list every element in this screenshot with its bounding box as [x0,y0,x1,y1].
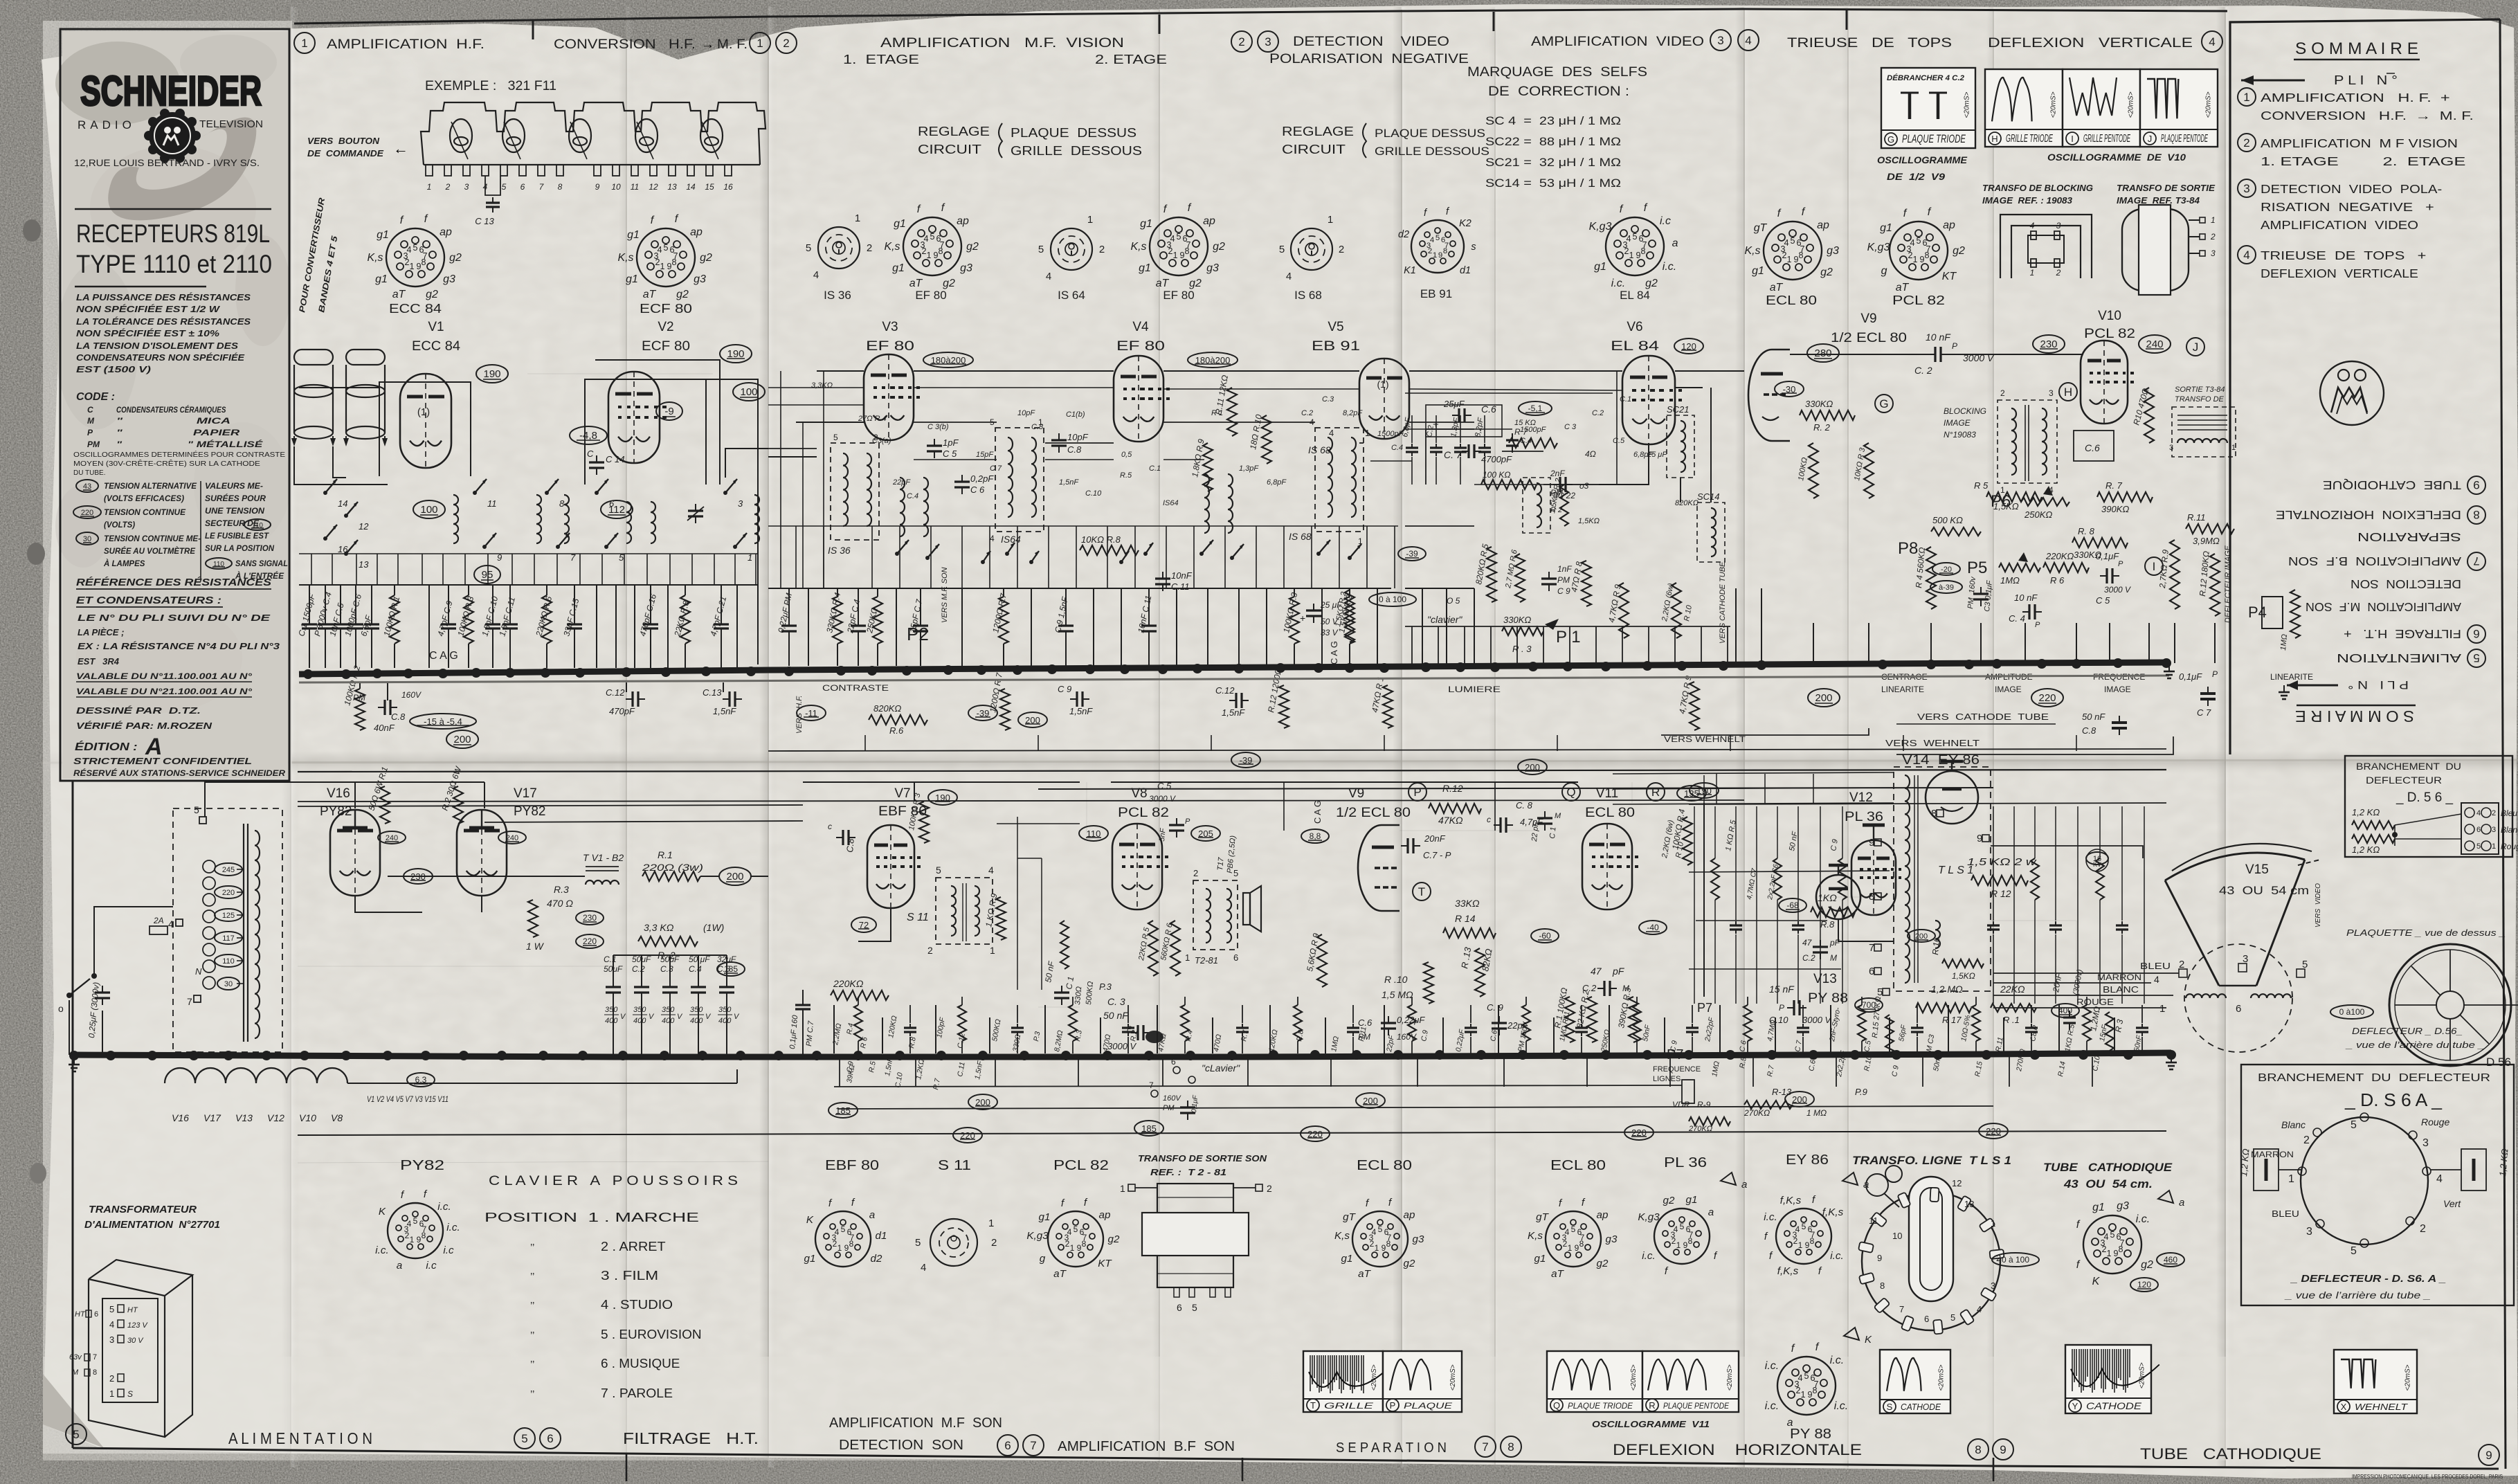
resistor [1777,806,1778,858]
voltage -11 [797,705,826,721]
CRT socket [2083,1215,2141,1274]
svg-text:i.c.: i.c. [446,1222,460,1233]
svg-text:IMAGE: IMAGE [2104,685,2131,694]
svg-text:o3: o3 [1579,481,1589,491]
capacitor [1797,806,1799,921]
svg-text:C 9: C 9 [1557,586,1570,596]
svg-text:C.4: C.4 [1520,437,1532,445]
svg-text:P8: P8 [1898,539,1918,558]
capacitor 0,25uF 3000v [102,986,103,993]
svg-text:i.c: i.c [1660,215,1671,227]
svg-text:1: 1 [410,1235,415,1245]
svg-text:0,1μF: 0,1μF [1190,1094,1199,1113]
svg-text:1. ETAGE: 1. ETAGE [843,53,919,66]
svg-text:220Ω (3w): 220Ω (3w) [642,862,703,873]
svg-text:g1: g1 [1880,222,1892,234]
svg-text:<20mS>: <20mS> [1370,1364,1378,1391]
svg-text:S E P A R A T I O N: S E P A R A T I O N [1336,1440,1447,1456]
svg-text:Vert: Vert [2443,1198,2461,1209]
svg-text:2: 2 [1267,1183,1272,1194]
tube socket IS36 [818,227,860,269]
svg-text:i.c: i.c [443,1245,454,1256]
svg-text:R 14: R 14 [1455,913,1476,924]
svg-text:1: 1 [1676,1240,1681,1250]
svg-text:1,3pF: 1,3pF [1239,464,1259,473]
TLS1 drawing [1862,1192,2000,1330]
svg-text:" PAPIER: " PAPIER [116,428,240,437]
voltage 400 [2051,1004,2079,1017]
svg-text:CONVERSION H.F. → M. F.: CONVERSION H.F. → M. F. [2261,109,2474,123]
svg-text:T V1 - B2: T V1 - B2 [583,852,624,863]
svg-text:9: 9 [595,182,600,192]
tube V17 PY82 [457,810,507,896]
oval 0a100 crt [1992,1253,2039,1267]
svg-text:25 μF: 25 μF [1647,451,1667,459]
svg-text:"cLavier": "cLavier" [1202,1062,1240,1074]
capacitor 4,7pF C.9 [448,585,449,619]
svg-text:K,s: K,s [884,241,900,253]
tube socket ECC84 [386,228,444,287]
svg-text:8: 8 [558,182,563,192]
svg-text:30: 30 [224,980,233,988]
svg-text:1: 1 [1798,1240,1803,1250]
svg-text:f,K,s: f,K,s [1822,1206,1844,1218]
secondary winding [255,831,260,1038]
svg-text:9: 9 [933,251,938,260]
cathode joints [355,896,422,912]
svg-text:’’: ’’ [530,1271,534,1283]
svg-text:240: 240 [506,834,518,842]
svg-text:i.c.: i.c. [1611,278,1625,289]
mains switch [66,993,72,998]
resistor R8 330K [2072,538,2128,548]
svg-text:5: 5 [1435,234,1440,242]
svg-text:1: 1 [2231,444,2236,452]
panel2 vertical drops [795,526,797,588]
svg-text:AMPLIFICATION H.F.: AMPLIFICATION H.F. [327,37,484,52]
svg-text:1: 1 [855,212,860,224]
svg-text:5: 5 [1192,1302,1197,1313]
svg-text:200: 200 [726,871,743,883]
svg-text:22pF: 22pF [892,478,911,487]
svg-text:ap: ap [1597,1209,1609,1221]
capacitor [1127,1005,1129,1023]
svg-text:5: 5 [413,1216,418,1226]
letter R circ [1647,783,1665,801]
svg-text:390KΩ: 390KΩ [2101,504,2129,514]
wire [808,588,809,666]
svg-text:4: 4 [109,1319,114,1330]
oscillogram V10 triptych [1985,69,2063,147]
svg-text:8: 8 [421,257,426,267]
voltage 220 b [576,934,604,948]
svg-text:RADIO: RADIO [78,118,136,132]
svg-text:f,K,s: f,K,s [1777,1265,1799,1277]
svg-text:C.10: C.10 [1769,1015,1788,1025]
branchement D56A panel [2241,1065,2514,1305]
panel2 tuning coils B [1204,474,1209,533]
svg-text:C.10: C.10 [1085,489,1102,498]
svg-text:GRILLE TRIODE: GRILLE TRIODE [2006,133,2053,145]
svg-text:R .10: R .10 [1384,974,1408,985]
tube V12 PL36 [1851,840,1896,915]
svg-text:R 5: R 5 [1974,480,1989,491]
svg-text:2: 2 [1099,244,1105,255]
wire [1031,588,1032,666]
oval 0a100 d56 [2330,1005,2373,1019]
tube socket PY88 bottom [1777,1357,1836,1415]
svg-text:9: 9 [667,262,671,271]
svg-text:1500pF: 1500pF [1377,430,1404,438]
sommaire item 3 [2238,179,2256,197]
svg-text:V9: V9 [1348,786,1364,801]
svg-text:X: X [2341,1402,2347,1412]
svg-text:g2: g2 [1953,245,1965,257]
svg-text:G: G [1887,134,1894,145]
tube V16 PY82 [330,810,380,896]
svg-text:POLARISATION NEGATIVE: POLARISATION NEGATIVE [1269,52,1469,66]
svg-text:5: 5 [109,1304,114,1314]
svg-text:P5: P5 [1967,559,1987,577]
tube socket ECF80 [637,228,695,287]
svg-text:8: 8 [1386,1239,1391,1249]
svg-text:CONDENSATEURS CÉRAMIQUES: CONDENSATEURS CÉRAMIQUES [116,404,226,415]
svg-text:K: K [2092,1276,2101,1287]
voltage taps column [215,863,242,876]
svg-text:2. ETAGE: 2. ETAGE [1095,53,1167,66]
svg-text:400: 400 [633,1017,646,1025]
svg-text:REGLAGE: REGLAGE [1282,125,1354,138]
svg-text:K,s: K,s [617,252,633,264]
svg-text:IMAGE REF. T3-84: IMAGE REF. T3-84 [2117,196,2200,206]
wires V9 [1400,830,1537,831]
tube V4 EF80 [1114,356,1163,442]
svg-text:2A: 2A [153,916,164,925]
resistor [1975,997,1977,1005]
horizontal return rails lower [834,1085,1682,1087]
svg-text:AMPLIFICATION VIDEO: AMPLIFICATION VIDEO [1531,35,1704,49]
svg-text:-5,1: -5,1 [1528,404,1543,413]
svg-text:1: 1 [2106,1249,2111,1258]
long plate rails upper band [768,387,864,388]
svg-text:5: 5 [521,1432,527,1445]
svg-text:5: 5 [1176,232,1181,242]
svg-text:9: 9 [844,1243,849,1253]
wire [615,585,617,668]
svg-text:4: 4 [407,1219,412,1229]
svg-text:VERS VIDEO: VERS VIDEO [2315,883,2322,927]
wire [736,585,738,668]
wire [1422,588,1423,664]
svg-text:VALEURS ME-: VALEURS ME- [205,482,263,491]
svg-text:4: 4 [921,1262,926,1274]
sheet right border [2500,19,2506,1469]
svg-text:g1: g1 [626,273,638,285]
svg-text:G: G [1879,397,1888,410]
svg-text:5: 5 [2351,1119,2357,1131]
svg-text:DE CORRECTION :: DE CORRECTION : [1488,84,1629,99]
wire [1694,806,1695,1004]
svg-text:220: 220 [81,509,93,517]
resistor R10 18ohm [1262,415,1271,464]
svg-text:LE FUSIBLE EST: LE FUSIBLE EST [205,532,269,541]
svg-text:2: 2 [2210,232,2216,242]
oscillogram Y cathode [2065,1345,2151,1413]
panel2 left rail wires [780,371,781,588]
blocking transformer [1998,400,2057,483]
svg-text:5: 5 [1632,232,1637,242]
wire [1093,588,1094,666]
svg-text:+: + [1300,613,1305,624]
capacitor 33pF C.15 [574,585,575,619]
svg-text:R 16: R 16 [1930,936,1941,955]
svg-text:_ D. S 6 A _: _ D. S 6 A _ [2344,1089,2443,1110]
svg-text:9: 9 [1575,1243,1579,1253]
voltage 230 [2033,335,2065,353]
svg-text:AMPLIFICATION H. F. +: AMPLIFICATION H. F. + [2261,91,2450,105]
svg-text:250KΩ: 250KΩ [2024,509,2052,520]
svg-text:<20mS>: <20mS> [2050,91,2058,118]
capacitor C8 v7 [836,837,843,838]
svg-text:g1: g1 [377,229,389,241]
svg-text:P: P [87,428,93,437]
svg-text:11: 11 [487,498,497,509]
wire [1269,1005,1271,1053]
svg-text:1: 1 [1185,952,1190,963]
svg-text:6: 6 [2473,627,2479,640]
wire [1176,588,1177,666]
svg-text:DÉBRANCHER 4 C.2: DÉBRANCHER 4 C.2 [1887,73,1964,82]
wire [1609,1005,1610,1053]
svg-text:d1: d1 [876,1230,887,1242]
svg-text:P7: P7 [1667,1047,1683,1062]
resistor R4 560K [1926,547,1936,609]
svg-text:TRANSFO DE SORTIE SON: TRANSFO DE SORTIE SON [1138,1153,1267,1164]
wire top rail panel2 [817,370,864,372]
svg-text:8,8: 8,8 [1310,831,1321,841]
svg-text:95: 95 [482,569,493,581]
svg-text:5: 5 [2473,651,2479,664]
svg-text:43 OU 54 cm: 43 OU 54 cm [2219,884,2309,897]
svg-text:K2: K2 [1459,218,1471,229]
wire rouge [1993,1007,2166,1008]
svg-text:C.2: C.2 [1802,953,1815,963]
svg-text:g1: g1 [1140,218,1152,230]
svg-text:6,3: 6,3 [415,1075,427,1085]
tube V6 EL84 [1622,356,1675,444]
svg-text:PCL 82: PCL 82 [1053,1158,1109,1173]
svg-text:K,g3: K,g3 [1026,1230,1049,1242]
mid rail panel3 [1405,588,1474,589]
svg-text:C: C [87,405,93,415]
svg-text:TENSION CONTINUE ME-: TENSION CONTINUE ME- [104,535,201,543]
svg-text:2 . ARRET: 2 . ARRET [601,1240,666,1254]
wire [989,1017,990,1053]
svg-text:EY 86: EY 86 [1786,1152,1829,1168]
svg-text:R 1: R 1 [1211,409,1223,417]
svg-text:12: 12 [649,182,658,192]
svg-text:BLEU: BLEU [2272,1209,2299,1219]
svg-text:PLAQUE DESSUS: PLAQUE DESSUS [1375,127,1485,140]
svg-text:KT: KT [1098,1258,1112,1269]
svg-text:VERS WEHNELT: VERS WEHNELT [1885,738,1980,748]
svg-text:SORTIE T3-84: SORTIE T3-84 [2175,386,2225,394]
svg-text:aT: aT [1053,1268,1067,1280]
resistor 4,7K vertical right [1690,682,1699,730]
voltage 120 panel3 [1674,338,1703,354]
mains wires [94,907,173,976]
svg-text:V17: V17 [203,1112,221,1123]
svg-text:5: 5 [1802,1222,1806,1231]
svg-text:9: 9 [1977,833,1982,844]
svg-text:OSCILLOGRAMME DE V10: OSCILLOGRAMME DE V10 [2047,152,2186,163]
svg-text:9: 9 [1683,1240,1688,1250]
voltage -51 [1519,401,1552,415]
svg-text:5: 5 [806,242,811,254]
svg-text:R.1: R.1 [658,849,673,860]
svg-text:1: 1 [1328,214,1333,226]
svg-text:OSCILLOGRAMME: OSCILLOGRAMME [1877,154,1968,165]
svg-text:aT: aT [1358,1268,1371,1280]
svg-text:K,g3: K,g3 [1638,1211,1660,1223]
svg-text:P L I N °: P L I N ° [2334,73,2398,87]
svg-text:S O M M A I R E: S O M M A I R E [2295,39,2418,58]
svg-text:R.11: R.11 [2187,512,2206,523]
svg-text:N°19083: N°19083 [1944,430,1976,440]
section header 1 [294,33,315,53]
capacitor 1,3pF [1460,415,1461,443]
svg-text:1. ETAGE 2. ETAGE: 1. ETAGE 2. ETAGE [2261,154,2465,168]
svg-text:5: 5 [1279,244,1285,255]
resistor R12 47K [1429,804,1481,813]
svg-text:T17: T17 [1216,856,1226,871]
svg-text:C A G: C A G [1329,641,1339,664]
heater wire [347,1083,737,1084]
resistor [1184,997,1186,1005]
svg-text:1: 1 [660,262,664,271]
resistor [2034,806,2036,858]
tube V3 EF80 [864,354,914,440]
wire [1474,588,1475,664]
svg-text:R 2: R 2 [1550,506,1562,514]
svg-text:PLAQUE TRIODE: PLAQUE TRIODE [1902,133,1966,145]
tube socket EB91 [1411,220,1464,273]
svg-text:Y: Y [2072,1401,2078,1411]
voltage 240 2v a [378,831,406,844]
svg-text:47: 47 [1802,938,1813,948]
svg-text:a: a [2179,1197,2184,1209]
wires above upper bus panel3 [1411,626,1413,664]
svg-text:V17: V17 [514,786,537,801]
svg-text:K: K [379,1206,386,1218]
svg-text:R 17: R 17 [1942,1015,1962,1025]
svg-text:R. 2: R. 2 [1813,422,1831,433]
svg-text:aT: aT [1896,282,1910,293]
svg-text:IS 36: IS 36 [828,545,851,556]
svg-text:WEHNELT: WEHNELT [2355,1402,2408,1412]
svg-text:MARRON: MARRON [2251,1150,2294,1159]
voltage 240 2v b [498,831,526,844]
voltage 135 [1677,786,1706,801]
svg-text:9: 9 [2485,1449,2492,1462]
svg-text:g3: g3 [1206,262,1219,274]
svg-text:9: 9 [2473,478,2479,491]
svg-text:K: K [1865,1334,1872,1346]
resistor R2 30ohm 6W [453,786,463,824]
voltage 72 oval [851,917,876,932]
svg-text:RECEPTEURS 819L: RECEPTEURS 819L [76,219,270,248]
primary winding [203,860,215,873]
resistor R1 50ohm 6W [380,786,390,824]
svg-text:d2: d2 [871,1253,882,1265]
svg-text:TRANSFO DE BLOCKING: TRANSFO DE BLOCKING [1982,183,2093,193]
svg-text:5: 5 [194,804,199,815]
svg-text:200: 200 [453,734,471,745]
svg-text:4: 4 [1674,1224,1678,1234]
IF transformer IS64 [995,428,1044,532]
capacitor C7 4700pF [1462,451,1469,452]
svg-text:1: 1 [427,182,432,192]
capacitor C.2 [1435,415,1437,443]
wire [667,585,669,668]
gray S swoosh of Schneider logo [108,118,256,221]
svg-text:V16: V16 [327,786,350,801]
capacitor 10nF C.11 [1148,588,1150,622]
svg-text:i.c.: i.c. [2136,1213,2150,1225]
svg-text:C.4: C.4 [907,492,918,500]
svg-text:i.c: i.c [426,1260,437,1272]
0a100 oval [1369,592,1416,606]
svg-text:3000 V: 3000 V [2104,585,2131,595]
svg-text:8: 8 [559,498,565,509]
capacitor C7 PM [802,990,804,1000]
inter-panel routing wires [298,805,803,806]
svg-text:2: 2 [109,1373,114,1384]
svg-text:_ DEFLECTEUR - D. S6. A _: _ DEFLECTEUR - D. S6. A _ [2290,1273,2446,1285]
svg-text:P L I N °: P L I N ° [2348,678,2409,691]
wire [935,1005,936,1053]
long return wires band [298,770,2166,772]
svg-text:PLAQUE PENTODE: PLAQUE PENTODE [1663,1401,1730,1411]
svg-text:820KΩ: 820KΩ [1675,499,1699,507]
wire blanc [1993,995,2173,996]
svg-text:VÉRIFIÉ PAR: M.ROZEN: VÉRIFIÉ PAR: M.ROZEN [76,721,212,731]
resistor 22KΩ R.8 [685,585,686,595]
svg-text:PLAQUE PENTODE: PLAQUE PENTODE [2161,133,2208,145]
svg-text:C. 4: C. 4 [2009,613,2025,624]
svg-text:DEFLECTEUR _ D.56_: DEFLECTEUR _ D.56_ [2352,1026,2463,1036]
svg-text:g1: g1 [1139,262,1151,274]
return wire 220 row1 [298,1131,2166,1135]
svg-text:8: 8 [1924,251,1929,260]
svg-text:g1: g1 [894,218,906,230]
capacitor P 3000v C.4 [325,585,326,619]
svg-text:P2: P2 [907,624,929,644]
svg-text:1pF: 1pF [943,437,959,448]
svg-text:BRANCHEMENT DU DEFLECTEUR: BRANCHEMENT DU DEFLECTEUR [2258,1072,2490,1084]
svg-text:1: 1 [1800,1390,1805,1400]
svg-text:VALABLE DU N°21.100.001 AU N°: VALABLE DU N°21.100.001 AU N° [76,687,252,696]
svg-text:LE N° DU PLI SUIVI DU N° DE: LE N° DU PLI SUIVI DU N° DE [78,613,271,623]
svg-text:BLANC: BLANC [2103,984,2139,995]
svg-text:IMPRESSION PHOTOMECANIQUE, LES: IMPRESSION PHOTOMECANIQUE, LES PROCEDES … [2352,1474,2503,1480]
resistor 560K R6 [1170,921,1180,976]
wire [2144,806,2145,1004]
coupling coil box IS36 feed [725,449,768,478]
svg-text:1: 1 [1786,255,1791,264]
svg-text:M: M [72,1368,79,1377]
left info panel marble texture [62,31,288,779]
